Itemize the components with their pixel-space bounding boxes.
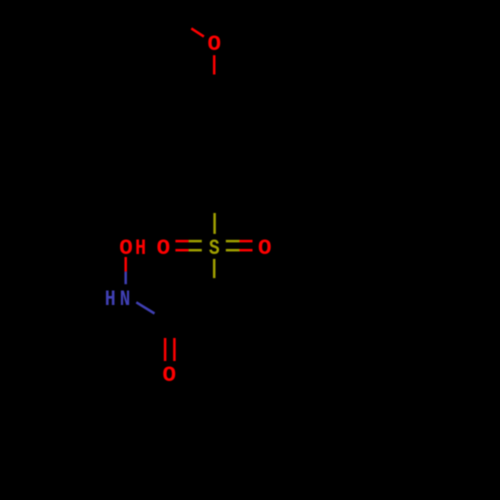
atom O (sulfonyl left) bbox=[157, 235, 171, 261]
bond CH3-O (methoxy, O half, red) bbox=[191, 28, 204, 36]
bond O-N (upper O half red, lower N half blue) bbox=[124, 257, 127, 284]
atom O (methoxy) bbox=[208, 31, 222, 57]
svg-text:O: O bbox=[258, 235, 272, 261]
double bond C=O carbonyl, right line (O half, red) bbox=[173, 338, 176, 361]
double bond S=O right, upper line (olive S half + red O half) bbox=[226, 240, 253, 243]
double bond S=O right, lower line (olive S half + red O half) bbox=[226, 249, 253, 252]
atom O (sulfonyl right) bbox=[258, 235, 272, 261]
double bond S=O left, upper line (red O half + olive S half) bbox=[175, 240, 201, 243]
svg-text:O: O bbox=[162, 362, 176, 388]
label HN (amide nitrogen) bbox=[105, 287, 131, 313]
svg-text:O: O bbox=[208, 31, 222, 57]
svg-text:N: N bbox=[120, 287, 131, 313]
bond N-C carbonyl (N half, blue) bbox=[136, 302, 154, 313]
double bond S=O left, lower line (red O half + olive S half) bbox=[175, 249, 201, 252]
double bond C=O carbonyl, left line (O half, red) bbox=[164, 338, 167, 361]
svg-text:H: H bbox=[135, 237, 146, 262]
svg-text:S: S bbox=[209, 237, 220, 262]
label OH (hydroxylamine oxygen) bbox=[119, 235, 146, 262]
svg-text:O: O bbox=[157, 235, 171, 261]
bond O-C1 ring (O half, red) bbox=[213, 55, 216, 74]
atom O (carbonyl) bbox=[162, 362, 176, 388]
bond S-CH alpha (S half, olive) bbox=[213, 259, 216, 278]
svg-text:H: H bbox=[105, 287, 116, 312]
atom S (sulfonyl) bbox=[209, 237, 220, 262]
bond C4 ring-S (S half, olive) bbox=[213, 213, 216, 234]
